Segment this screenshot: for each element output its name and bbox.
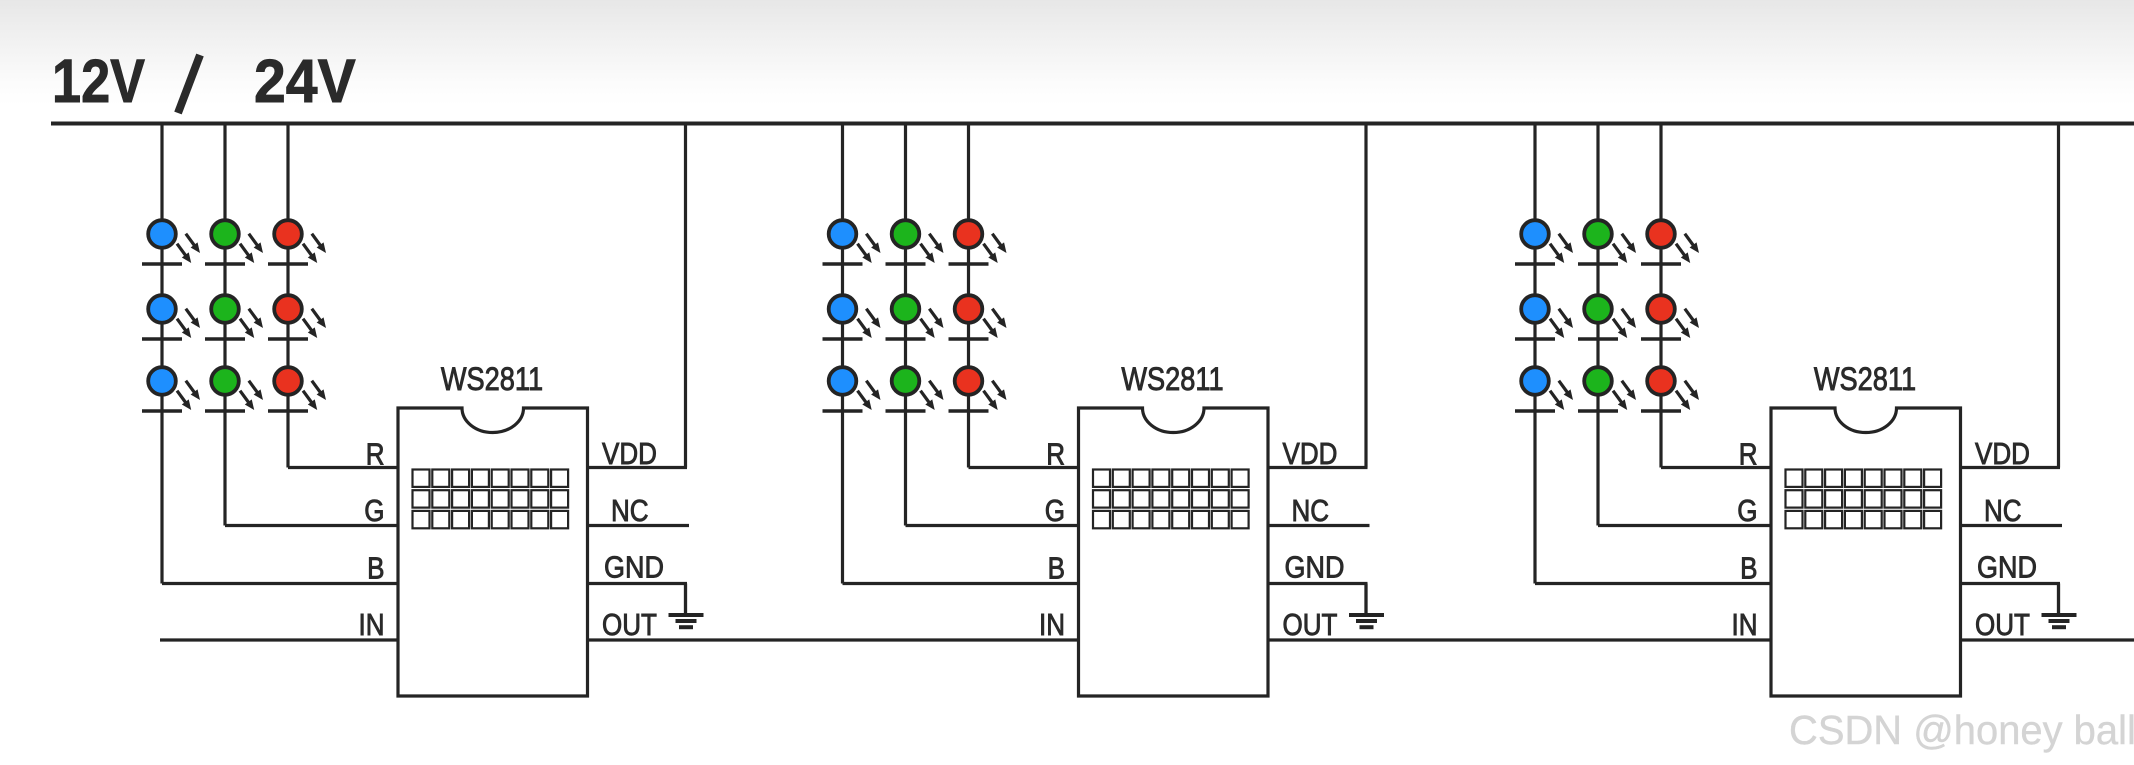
svg-text:12V: 12V (52, 47, 145, 116)
svg-text:CSDN @honey ball: CSDN @honey ball (1789, 707, 2134, 754)
svg-text:24V: 24V (254, 46, 356, 115)
